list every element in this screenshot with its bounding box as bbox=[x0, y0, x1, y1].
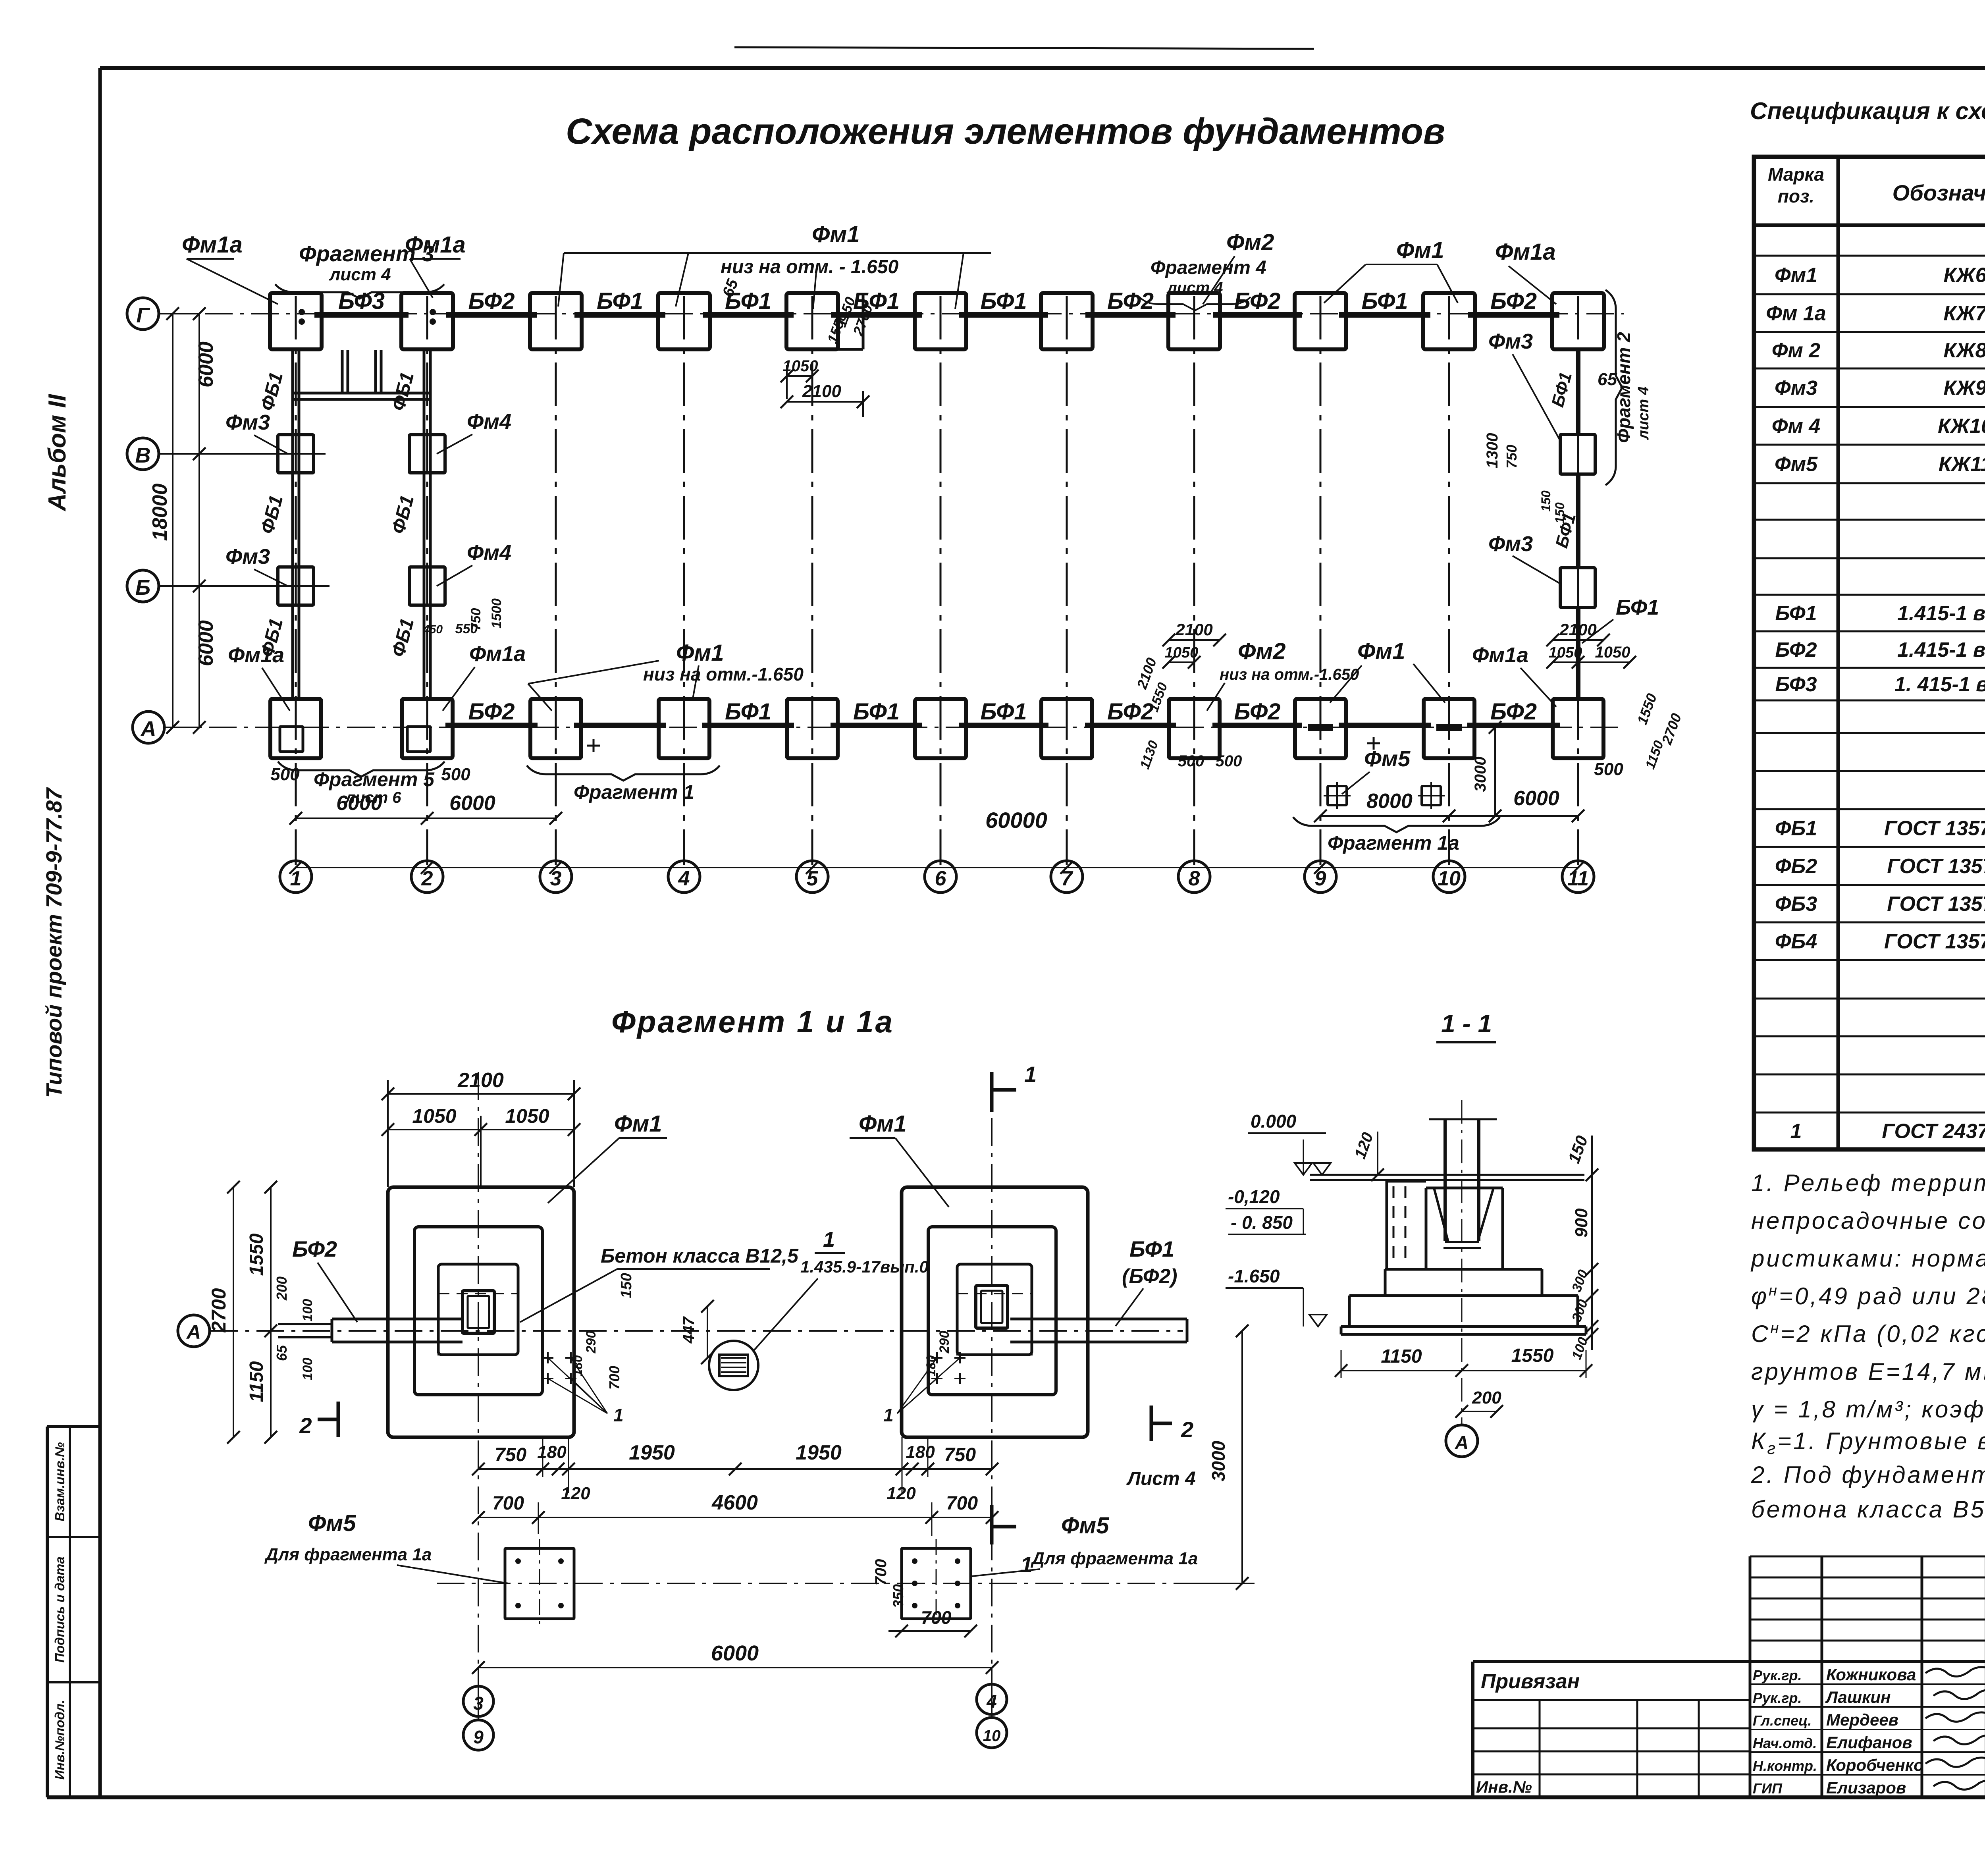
svg-text:1950: 1950 bbox=[796, 1441, 842, 1464]
fragment 1а brace + label bbox=[1293, 817, 1500, 832]
left dim line 6000 segments bbox=[198, 314, 200, 727]
svg-text:БФ1: БФ1 bbox=[1129, 1236, 1174, 1261]
svg-text:А: А bbox=[186, 1321, 201, 1343]
svg-text:БФ2: БФ2 bbox=[1490, 699, 1537, 725]
bottom dim line 8000/6000 (cols9-11) bbox=[1320, 815, 1578, 817]
svg-text:-0,120: -0,120 bbox=[1228, 1186, 1280, 1207]
fragment left beam БФ2 bbox=[332, 1318, 463, 1321]
svg-text:500: 500 bbox=[270, 765, 300, 784]
svg-text:4: 4 bbox=[678, 867, 690, 890]
svg-text:БФ1: БФ1 bbox=[1775, 602, 1817, 625]
svg-text:2: 2 bbox=[1181, 1417, 1193, 1442]
svg-text:180: 180 bbox=[906, 1442, 935, 1462]
fragment left dashed square bbox=[438, 1294, 518, 1355]
svg-text:Сн=2 кПа (0,02 кгс/см²); мод: Сн=2 кПа (0,02 кгс/см²); модуль деформац… bbox=[1751, 1320, 1985, 1347]
svg-text:6000: 6000 bbox=[195, 620, 218, 666]
svg-text:Б: Б bbox=[135, 576, 150, 600]
svg-text:БФ2: БФ2 bbox=[468, 288, 515, 314]
plan: axis row Б line bbox=[159, 585, 330, 587]
svg-text:ГОСТ 13579 -78*: ГОСТ 13579 -78* bbox=[1884, 930, 1985, 953]
svg-text:БФ1: БФ1 bbox=[853, 699, 900, 725]
section ground double line bbox=[1310, 1174, 1584, 1176]
spec table grid bbox=[1754, 157, 1985, 1149]
svg-text:200: 200 bbox=[274, 1276, 290, 1301]
svg-text:1050: 1050 bbox=[1549, 644, 1582, 661]
section mark 1 top bbox=[990, 1072, 994, 1112]
svg-text:Схема расположения элементо: Схема расположения элементов фундаментов bbox=[566, 111, 1445, 152]
svg-text:Фм1а: Фм1а bbox=[1472, 643, 1528, 667]
anchor bolts left footing bbox=[542, 1357, 553, 1359]
svg-text:Фрагмент 1а: Фрагмент 1а bbox=[1328, 832, 1459, 854]
svg-text:ГОСТ 13579-78*: ГОСТ 13579-78* bbox=[1887, 893, 1985, 916]
svg-text:10: 10 bbox=[1438, 867, 1461, 890]
svg-text:1050: 1050 bbox=[783, 357, 818, 375]
svg-text:КЖ11: КЖ11 bbox=[1939, 453, 1985, 476]
plan: dark band block col10 row А bbox=[1436, 724, 1462, 731]
svg-text:447: 447 bbox=[680, 1316, 698, 1344]
svg-text:ФБ1: ФБ1 bbox=[388, 616, 418, 659]
dims near col5 row Г: 1050/2100 + rotated 1550 1150 2700 bbox=[812, 348, 863, 351]
fragment left footing ring 2 bbox=[414, 1227, 542, 1395]
svg-text:750: 750 bbox=[495, 1444, 526, 1465]
svg-text:лист 4: лист 4 bbox=[329, 265, 391, 284]
svg-text:750: 750 bbox=[944, 1444, 976, 1465]
plan: wall beam col11 vertical bbox=[1576, 349, 1580, 434]
svg-text:бетона класса В5 толщино: бетона класса В5 толщиной 100мм. bbox=[1751, 1496, 1985, 1523]
svg-text:Привязан: Привязан bbox=[1481, 1670, 1580, 1693]
svg-text:ФБ1: ФБ1 bbox=[257, 370, 287, 413]
svg-text:В: В bbox=[135, 443, 151, 467]
svg-text:Г: Г bbox=[136, 303, 150, 327]
svg-text:18000: 18000 bbox=[148, 484, 172, 541]
Фм5 anchor plate right bbox=[902, 1548, 971, 1619]
axis circle В bbox=[127, 438, 159, 470]
svg-text:Обозначение: Обозначение bbox=[1892, 180, 1985, 205]
svg-text:Типовой проект 709-9-77.87: Типовой проект 709-9-77.87 bbox=[41, 787, 66, 1098]
fragment left column bbox=[463, 1291, 494, 1333]
svg-text:поз.: поз. bbox=[1778, 186, 1814, 206]
fragment column line 3/9 bbox=[478, 1072, 479, 1686]
svg-text:ФБ4: ФБ4 bbox=[1775, 930, 1817, 953]
svg-text:Фм1: Фм1 bbox=[812, 222, 860, 247]
svg-text:Альбом II: Альбом II bbox=[44, 393, 71, 512]
svg-text:грунтов Е=14,7 мПа (150кгс/см: грунтов Е=14,7 мПа (150кгс/см²), плотнос… bbox=[1751, 1358, 1985, 1385]
svg-text:6: 6 bbox=[935, 867, 947, 890]
svg-text:450: 450 bbox=[422, 623, 443, 636]
svg-text:БФ3: БФ3 bbox=[1775, 673, 1817, 696]
svg-text:Фм1а: Фм1а bbox=[469, 642, 526, 666]
total dim line 60000 bbox=[296, 867, 1578, 868]
svg-text:низ на отм. - 1.650: низ на отм. - 1.650 bbox=[721, 256, 898, 278]
svg-text:А: А bbox=[140, 717, 156, 741]
svg-text:лист 6: лист 6 bbox=[345, 789, 401, 806]
fragment left footing Фм1 outer bbox=[388, 1187, 574, 1437]
svg-text:1: 1 bbox=[883, 1405, 894, 1425]
svg-text:ФБ1: ФБ1 bbox=[257, 493, 287, 536]
svg-text:Фм2: Фм2 bbox=[1226, 229, 1274, 255]
svg-text:Фм5: Фм5 bbox=[1061, 1513, 1109, 1539]
svg-text:2100: 2100 bbox=[1559, 620, 1596, 639]
page frame bbox=[100, 66, 1985, 70]
svg-text:200: 200 bbox=[1472, 1388, 1501, 1407]
svg-text:6000: 6000 bbox=[195, 341, 218, 388]
section mark 2 left bbox=[337, 1402, 340, 1437]
section bottom dims 1150 1550 200 bbox=[1341, 1370, 1586, 1371]
svg-text:Фм3: Фм3 bbox=[225, 411, 270, 434]
svg-text:Фрагмент 1 и 1а: Фрагмент 1 и 1а bbox=[611, 1004, 894, 1039]
fragment 2 brace and rotated label (right of col11) bbox=[1605, 290, 1622, 485]
left dim line 18000 bbox=[172, 314, 173, 727]
svg-text:ГИП: ГИП bbox=[1753, 1780, 1783, 1797]
svg-text:1500: 1500 bbox=[489, 598, 504, 629]
svg-text:КЖ10: КЖ10 bbox=[1938, 415, 1985, 438]
svg-text:Фм3: Фм3 bbox=[1488, 532, 1533, 556]
fragment right footing Фм1 outer bbox=[902, 1187, 1088, 1437]
anchor cross marks row А bbox=[593, 739, 595, 752]
svg-text:Нач.отд.: Нач.отд. bbox=[1753, 1735, 1817, 1751]
svg-text:1550: 1550 bbox=[1634, 691, 1660, 727]
plan: blocks Фм3 on col 11 bbox=[1560, 434, 1595, 474]
svg-text:-1.650: -1.650 bbox=[1228, 1266, 1280, 1286]
svg-text:Спецификация к схеме расположе: Спецификация к схеме расположения элемен… bbox=[1750, 98, 1985, 124]
svg-text:700: 700 bbox=[606, 1366, 622, 1390]
svg-text:300: 300 bbox=[1569, 1298, 1591, 1324]
svg-text:1: 1 bbox=[1024, 1062, 1037, 1087]
axis circle А bbox=[133, 711, 164, 743]
left margin stamp strip bbox=[46, 1427, 49, 1797]
svg-text:Фрагмент 5: Фрагмент 5 bbox=[314, 768, 435, 791]
svg-text:1950: 1950 bbox=[629, 1441, 675, 1464]
svg-text:ГОСТ 24379-0-80: ГОСТ 24379-0-80 bbox=[1882, 1120, 1985, 1143]
svg-text:1050: 1050 bbox=[1165, 644, 1199, 661]
svg-text:1130: 1130 bbox=[1137, 738, 1161, 771]
svg-text:9: 9 bbox=[473, 1727, 484, 1747]
svg-text:4600: 4600 bbox=[711, 1491, 758, 1514]
svg-text:1: 1 bbox=[1020, 1552, 1033, 1577]
svg-text:БФ1: БФ1 bbox=[980, 699, 1027, 725]
svg-text:3000: 3000 bbox=[1208, 1440, 1229, 1481]
svg-text:Фм5: Фм5 bbox=[1364, 746, 1411, 771]
svg-text:БФ1: БФ1 bbox=[597, 288, 643, 314]
plan: foundation beams row А bbox=[445, 723, 538, 728]
svg-text:Фм1: Фм1 bbox=[859, 1111, 906, 1137]
svg-text:Мердеев: Мердеев bbox=[1826, 1710, 1898, 1729]
dims near col8 row А: 2100 1050 + rotated bbox=[1169, 639, 1220, 641]
plan: blocks Фм3/Фм4 rows В,Б cols 1,2 bbox=[278, 435, 314, 473]
svg-text:Фм3: Фм3 bbox=[225, 545, 270, 569]
section column bbox=[1443, 1119, 1447, 1241]
dims near col11 row А: 2100 1050 1050 + 500 + rotated 1550 2700 1150 bbox=[1553, 639, 1603, 641]
svg-text:Фм3: Фм3 bbox=[1775, 377, 1817, 400]
svg-text:Рук.гр.: Рук.гр. bbox=[1753, 1690, 1802, 1706]
svg-text:8: 8 bbox=[1189, 867, 1200, 890]
svg-text:120: 120 bbox=[561, 1484, 590, 1503]
svg-text:Фм 2: Фм 2 bbox=[1772, 339, 1821, 362]
svg-text:(БФ2): (БФ2) bbox=[1122, 1265, 1178, 1288]
svg-text:150: 150 bbox=[618, 1273, 635, 1298]
axis circle Г bbox=[127, 298, 159, 330]
plan: axis row Г line bbox=[159, 313, 1624, 314]
svg-text:ФБ1: ФБ1 bbox=[1775, 817, 1817, 840]
svg-text:1: 1 bbox=[823, 1228, 835, 1251]
svg-text:750: 750 bbox=[1503, 445, 1520, 469]
fragment axis А circle + line bbox=[178, 1315, 210, 1347]
svg-text:Фм1: Фм1 bbox=[1775, 264, 1817, 287]
plan: inner block details row А col2 bbox=[407, 727, 430, 752]
svg-text:65: 65 bbox=[274, 1345, 290, 1361]
svg-text:1: 1 bbox=[1790, 1120, 1802, 1143]
svg-text:Н.контр.: Н.контр. bbox=[1753, 1758, 1817, 1774]
svg-text:КЖ9: КЖ9 bbox=[1943, 377, 1985, 400]
svg-text:Фм 4: Фм 4 bbox=[1772, 415, 1821, 438]
dim 6000 bottom bbox=[478, 1667, 992, 1668]
section steps bbox=[1385, 1268, 1542, 1271]
svg-text:БФ2: БФ2 bbox=[1490, 288, 1537, 314]
svg-text:1050: 1050 bbox=[412, 1105, 456, 1127]
svg-text:1.415-1 вып.1: 1.415-1 вып.1 bbox=[1897, 638, 1985, 661]
svg-text:Бетон класса В12,5: Бетон класса В12,5 bbox=[601, 1245, 799, 1267]
svg-text:ГОСТ 13579-78*: ГОСТ 13579-78* bbox=[1887, 855, 1985, 878]
svg-text:180: 180 bbox=[924, 1355, 938, 1377]
svg-text:1 - 1: 1 - 1 bbox=[1441, 1009, 1492, 1038]
svg-text:Фм3: Фм3 bbox=[1488, 330, 1533, 353]
svg-text:150: 150 bbox=[1539, 490, 1553, 512]
svg-text:1.435.9-17вып.0: 1.435.9-17вып.0 bbox=[800, 1257, 929, 1276]
svg-text:КЖ8: КЖ8 bbox=[1943, 339, 1985, 362]
section dims right 150 900 300 100 bbox=[1591, 1136, 1593, 1350]
section mark 2 right + Лист4 bbox=[1150, 1406, 1153, 1441]
svg-text:Для фрагмента 1а: Для фрагмента 1а bbox=[264, 1545, 432, 1564]
svg-text:Фм1: Фм1 bbox=[614, 1111, 662, 1137]
svg-text:6000: 6000 bbox=[449, 792, 495, 815]
svg-text:1300: 1300 bbox=[1484, 433, 1501, 469]
svg-text:Подпись и дата: Подпись и дата bbox=[52, 1556, 67, 1663]
plan: foundation blocks row А bbox=[270, 699, 321, 758]
svg-text:КЖ7: КЖ7 bbox=[1943, 302, 1985, 325]
svg-text:300: 300 bbox=[1569, 1268, 1591, 1294]
fragment left footing ring 3 bbox=[438, 1264, 518, 1355]
svg-text:2: 2 bbox=[299, 1413, 312, 1438]
svg-text:Гл.спец.: Гл.спец. bbox=[1753, 1712, 1812, 1729]
svg-text:Фм5: Фм5 bbox=[308, 1510, 356, 1536]
svg-text:1050: 1050 bbox=[1595, 644, 1630, 661]
section beam block left with dashed lines bbox=[1386, 1181, 1388, 1269]
fragment right column bbox=[976, 1286, 1008, 1328]
svg-text:1150: 1150 bbox=[1381, 1346, 1422, 1367]
svg-text:1.415-1 вып.1: 1.415-1 вып.1 bbox=[1897, 602, 1985, 625]
svg-text:Фм1а: Фм1а bbox=[182, 232, 243, 258]
svg-text:БФ2: БФ2 bbox=[1107, 699, 1154, 725]
svg-text:550: 550 bbox=[455, 621, 478, 636]
svg-text:Елизаров: Елизаров bbox=[1826, 1778, 1906, 1797]
svg-text:1. 415-1 вып.1: 1. 415-1 вып.1 bbox=[1894, 673, 1985, 696]
fragment dim chain 750/180/1950/1950/180/750 with 120s bbox=[478, 1468, 992, 1470]
svg-text:1150: 1150 bbox=[246, 1361, 267, 1402]
svg-text:Фм1: Фм1 bbox=[1396, 237, 1444, 263]
plan: inner block details row А col1 bbox=[280, 727, 303, 752]
svg-text:700: 700 bbox=[492, 1493, 524, 1514]
svg-text:0.000: 0.000 bbox=[1251, 1111, 1297, 1132]
svg-text:350: 350 bbox=[890, 1584, 906, 1608]
block marker dots col1,col2 row Г bbox=[299, 309, 305, 315]
fragment left dims 1550/1150/2700 bbox=[233, 1187, 234, 1437]
plan: column circles 1-11 bbox=[280, 861, 312, 893]
fragment top dims 2100 / 1050 1050 bbox=[388, 1093, 574, 1095]
svg-text:БФ2: БФ2 bbox=[1234, 288, 1280, 314]
svg-text:БФ2: БФ2 bbox=[292, 1236, 337, 1261]
plan: axis row В line bbox=[159, 453, 326, 455]
svg-text:Фрагмент 1: Фрагмент 1 bbox=[574, 781, 694, 803]
bottom dim line 6000+6000 (cols1-3) bbox=[296, 817, 556, 819]
section mark 1 bottom bbox=[990, 1505, 994, 1544]
svg-text:Кг=1. Грунтовые воды отс: Кг=1. Грунтовые воды отсутствуют. bbox=[1751, 1428, 1985, 1458]
plan: foundation blocks row Г (Фм1/Фм1а/Фм2) bbox=[270, 293, 322, 349]
svg-text:Фрагмент 3: Фрагмент 3 bbox=[299, 241, 434, 266]
svg-text:65: 65 bbox=[1598, 370, 1617, 389]
svg-text:1550: 1550 bbox=[246, 1233, 267, 1276]
svg-text:2700: 2700 bbox=[208, 1288, 230, 1332]
svg-text:290: 290 bbox=[937, 1331, 952, 1354]
svg-text:БФ1: БФ1 bbox=[725, 699, 771, 725]
plan: wall beams col1 col2 (vertical БФ1 lines) bbox=[291, 349, 294, 699]
section axis circle А bbox=[1446, 1425, 1478, 1457]
fragment right footing ring 2 bbox=[928, 1227, 1056, 1395]
svg-text:КЖ6: КЖ6 bbox=[1943, 264, 1985, 287]
svg-text:Взам.инв.№: Взам.инв.№ bbox=[52, 1442, 67, 1521]
fragment 5 brace + label bbox=[278, 762, 445, 777]
svg-text:Фрагмент 4: Фрагмент 4 bbox=[1151, 257, 1266, 278]
svg-text:ФБ3: ФБ3 bbox=[1775, 893, 1817, 916]
svg-text:2700: 2700 bbox=[1658, 711, 1684, 747]
fragment dim line 700/4600/700 bbox=[478, 1517, 992, 1518]
svg-text:500: 500 bbox=[1178, 752, 1204, 770]
svg-text:- 0. 850: - 0. 850 bbox=[1231, 1212, 1293, 1233]
svg-text:А: А bbox=[1455, 1433, 1469, 1454]
svg-text:11: 11 bbox=[1567, 867, 1589, 890]
dim 3000 vertical near col10 bbox=[1494, 727, 1496, 816]
svg-text:Марка: Марка bbox=[1768, 164, 1824, 185]
svg-text:1050: 1050 bbox=[505, 1105, 549, 1127]
Фм5 horizontal axis dash line bbox=[437, 1583, 1183, 1584]
Фм5 anchor plate left bbox=[505, 1548, 574, 1619]
svg-text:Фм1а: Фм1а bbox=[228, 643, 284, 667]
svg-text:Для фрагмента 1а: Для фрагмента 1а bbox=[1030, 1549, 1198, 1568]
svg-text:60000: 60000 bbox=[985, 808, 1047, 833]
detail circle with hatched block bbox=[709, 1341, 758, 1390]
svg-text:БФ2: БФ2 bbox=[1775, 638, 1817, 661]
plan: axis row А line bbox=[163, 727, 1624, 728]
svg-text:Лист 4: Лист 4 bbox=[1126, 1468, 1196, 1489]
dim 3000 vertical right bbox=[1241, 1331, 1243, 1583]
svg-text:10: 10 bbox=[983, 1727, 1001, 1745]
svg-text:Инв.№: Инв.№ bbox=[1476, 1778, 1532, 1796]
svg-text:100: 100 bbox=[300, 1299, 315, 1322]
svg-text:500: 500 bbox=[1594, 760, 1623, 779]
svg-text:2100: 2100 bbox=[1175, 620, 1212, 639]
section foundation glass bbox=[1426, 1187, 1503, 1190]
axis circle Б bbox=[127, 570, 159, 602]
svg-text:БФ2: БФ2 bbox=[468, 699, 515, 725]
svg-text:Рук.гр.: Рук.гр. bbox=[1753, 1667, 1802, 1683]
svg-text:180: 180 bbox=[537, 1442, 567, 1462]
fragment right footing ring 3 bbox=[957, 1264, 1032, 1355]
svg-text:Елифанов: Елифанов bbox=[1826, 1733, 1912, 1752]
svg-text:6000: 6000 bbox=[1513, 787, 1559, 810]
svg-text:ФБ2: ФБ2 bbox=[1775, 855, 1817, 878]
svg-text:БФ1: БФ1 bbox=[1616, 596, 1659, 619]
svg-text:500: 500 bbox=[441, 765, 470, 784]
svg-text:120: 120 bbox=[887, 1484, 916, 1503]
svg-text:ГОСТ 13579 -78*: ГОСТ 13579 -78* bbox=[1884, 817, 1985, 840]
svg-text:700: 700 bbox=[921, 1607, 952, 1628]
svg-text:1550: 1550 bbox=[1511, 1345, 1554, 1366]
scan edge artifact line bbox=[734, 47, 1314, 49]
svg-text:100: 100 bbox=[300, 1358, 315, 1380]
svg-text:Лашкин: Лашкин bbox=[1825, 1688, 1891, 1706]
signature rows bbox=[1750, 1683, 1985, 1685]
svg-text:500: 500 bbox=[1216, 752, 1242, 770]
svg-text:Инв.№подл.: Инв.№подл. bbox=[52, 1700, 67, 1780]
svg-text:Фм1: Фм1 bbox=[1357, 638, 1405, 664]
svg-text:3000: 3000 bbox=[1472, 757, 1489, 792]
svg-text:Фм1: Фм1 bbox=[676, 640, 724, 666]
svg-text:БФ1: БФ1 bbox=[980, 288, 1027, 314]
svg-text:БФ1: БФ1 bbox=[1548, 370, 1576, 409]
svg-text:непросадочные со следующими: непросадочные со следующими нормативными… bbox=[1751, 1207, 1985, 1234]
svg-text:120: 120 bbox=[1351, 1130, 1377, 1161]
fragment col circles 3,9,4,10 bbox=[463, 1686, 493, 1716]
svg-text:Фм5: Фм5 bbox=[1775, 453, 1818, 476]
plan: fragment 3 door structure between cols 1-2 bbox=[293, 392, 431, 395]
svg-text:700: 700 bbox=[872, 1559, 890, 1586]
title block small signature grid bbox=[1749, 1556, 1752, 1797]
anchor bolts right footing bbox=[931, 1357, 942, 1359]
svg-text:Фм2: Фм2 bbox=[1238, 638, 1285, 664]
fragment column line 4/10 bbox=[991, 1072, 992, 1684]
svg-text:Фм4: Фм4 bbox=[467, 410, 511, 434]
plan: foundation beams row Г bbox=[314, 312, 409, 318]
svg-text:290: 290 bbox=[584, 1331, 599, 1354]
svg-text:Фм1а: Фм1а bbox=[1495, 239, 1556, 265]
svg-text:Фм 1а: Фм 1а bbox=[1766, 302, 1826, 325]
svg-text:700: 700 bbox=[946, 1493, 978, 1514]
svg-text:900: 900 bbox=[1572, 1208, 1591, 1238]
svg-text:1: 1 bbox=[613, 1405, 624, 1425]
svg-text:низ на отм.-1.650: низ на отм.-1.650 bbox=[643, 664, 804, 684]
svg-text:Фм4: Фм4 bbox=[467, 541, 511, 565]
svg-text:ФБ1: ФБ1 bbox=[388, 493, 418, 536]
svg-text:лист 4: лист 4 bbox=[1635, 386, 1652, 440]
svg-text:6000: 6000 bbox=[711, 1641, 759, 1665]
svg-text:γ = 1,8 т/м³; коэффициент: γ = 1,8 т/м³; коэффициент безопасности п… bbox=[1751, 1396, 1985, 1423]
svg-text:1. Рельеф территории с: 1. Рельеф территории спокойный; грунты н… bbox=[1751, 1170, 1985, 1196]
svg-text:2100: 2100 bbox=[802, 382, 841, 401]
title block main band top line bbox=[1473, 1660, 1985, 1663]
svg-text:Кожникова: Кожникова bbox=[1826, 1665, 1916, 1684]
svg-text:БФ2: БФ2 bbox=[1234, 699, 1280, 725]
svg-text:1150: 1150 bbox=[1642, 738, 1667, 771]
svg-text:2100: 2100 bbox=[457, 1069, 504, 1092]
svg-text:8000: 8000 bbox=[1366, 790, 1413, 813]
svg-text:2. Под фундаменты устраивает: 2. Под фундаменты устраивается подготовк… bbox=[1751, 1461, 1985, 1488]
fragment 1 brace + label bbox=[527, 765, 720, 781]
svg-text:ФБ1: ФБ1 bbox=[388, 370, 418, 413]
svg-text:БФ1: БФ1 bbox=[1361, 288, 1408, 314]
plan: column center lines 1-11 bbox=[295, 296, 297, 865]
svg-text:Коробченко: Коробченко bbox=[1826, 1756, 1924, 1774]
svg-text:ристиками: нормативный угол: ристиками: нормативный угол внутреннего … bbox=[1750, 1245, 1985, 1272]
svg-text:150: 150 bbox=[1553, 502, 1567, 524]
